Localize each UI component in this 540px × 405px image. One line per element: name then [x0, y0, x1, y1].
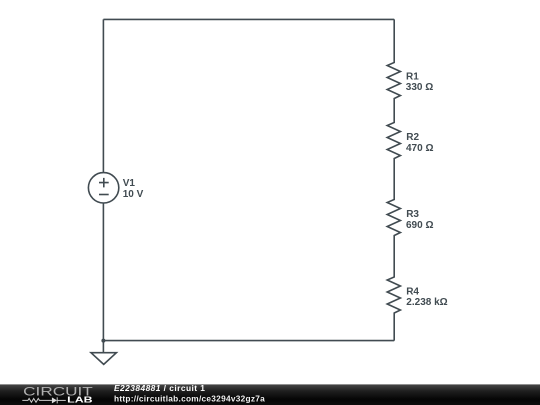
svg-text:E22384881 / circuit 1: E22384881 / circuit 1	[114, 383, 205, 393]
svg-text:330 Ω: 330 Ω	[406, 82, 433, 93]
svg-text:R3: R3	[406, 209, 419, 220]
svg-text:2.238 kΩ: 2.238 kΩ	[406, 297, 447, 308]
svg-text:http://circuitlab.com/ce3294v3: http://circuitlab.com/ce3294v32gz7a	[114, 394, 265, 404]
svg-text:470 Ω: 470 Ω	[406, 143, 433, 154]
svg-text:690 Ω: 690 Ω	[406, 220, 433, 231]
svg-text:10 V: 10 V	[123, 189, 144, 200]
svg-text:V1: V1	[123, 178, 136, 189]
svg-text:LAB: LAB	[67, 395, 92, 405]
svg-text:R1: R1	[406, 72, 419, 83]
svg-text:R2: R2	[406, 132, 419, 143]
svg-text:R4: R4	[406, 287, 419, 298]
